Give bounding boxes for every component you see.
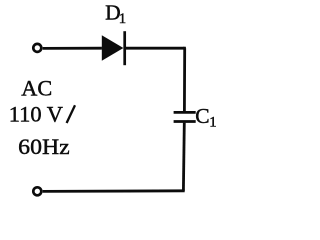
label D1: [105, 0, 126, 26]
svg-text:1: 1: [119, 11, 126, 27]
wire (from diode cathode to top-right corner): [126, 47, 184, 50]
label AC source (line 2: 110V/): [9, 102, 75, 127]
terminal (top-left input): [33, 44, 41, 52]
svg-text:1: 1: [209, 115, 216, 131]
capacitor C1: [174, 112, 196, 121]
wire (top horizontal from input terminal to diode anode): [43, 47, 102, 50]
label C1: [195, 104, 216, 131]
svg-text:C: C: [195, 104, 209, 128]
wire (capacitor bottom plate down to bottom-right corner): [182, 123, 186, 191]
terminal (bottom-left input): [33, 187, 41, 195]
wire (bottom horizontal from corner to output terminal): [43, 189, 185, 192]
svg-text:110 V: 110 V: [9, 102, 63, 127]
wire (right vertical, corner down to capacitor top plate): [184, 48, 186, 111]
svg-text:AC: AC: [21, 75, 52, 100]
svg-text:60Hz: 60Hz: [18, 134, 70, 159]
diode D1: [102, 31, 125, 65]
